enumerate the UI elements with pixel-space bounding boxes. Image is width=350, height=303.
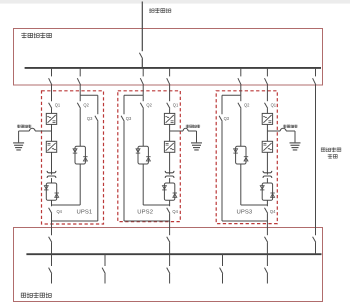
- battery UPS3: [294, 131, 296, 142]
- svg-text:Q1: Q1: [55, 103, 61, 108]
- wire: load feeder x=222.5: [222, 254, 224, 266]
- wire: [123, 121, 125, 221]
- wire: [169, 274, 171, 284]
- battery UPS2: [196, 131, 198, 142]
- bus: output cabinet busbar: [26, 253, 321, 255]
- wire: to output junction: [51, 200, 53, 206]
- wire: [240, 108, 242, 146]
- wire: maintenance bypass branch Q3 UPS2: [123, 95, 125, 114]
- wire: rectifier feed drop UPS2: [169, 68, 171, 77]
- rectifier (AC/DC) UPS3: [262, 113, 272, 124]
- label 电池开关: [283, 125, 286, 128]
- svg-text:Q2: Q2: [83, 103, 89, 108]
- wire: to output junction: [266, 200, 268, 206]
- output cabinet box 输出配电柜: [14, 228, 323, 302]
- wire: [169, 108, 171, 113]
- external maintenance bypass riser 外置维修旁路: [315, 68, 317, 77]
- wire: maintenance branch rejoins output: [52, 220, 98, 222]
- UPS unit UPS3 dashed enclosure: [216, 91, 277, 224]
- inverter (DC/AC) UPS2: [164, 141, 174, 152]
- breaker Q3 UPS3: [219, 116, 222, 122]
- inverter static switch UPS2: [164, 183, 174, 200]
- wire: maintenance branch rejoins output: [124, 220, 170, 222]
- wire: [169, 85, 171, 101]
- breaker: input cabinet feed (main) UPS2: [167, 78, 170, 85]
- label 电池开关: [17, 125, 20, 128]
- breaker Q4 UPS2: [167, 208, 170, 214]
- wire: inverter output UPS2: [169, 152, 171, 171]
- wire: tee to maintenance branch UPS3: [222, 94, 241, 96]
- wire: [266, 242, 268, 254]
- wire: bypass feed drop UPS1: [79, 68, 81, 77]
- wire: bypass feed drop UPS2: [142, 68, 144, 77]
- breaker Q4 UPS3: [265, 208, 268, 214]
- label 电池开关: [186, 125, 189, 128]
- wire: load feeder below bus (under UPS2): [169, 254, 171, 266]
- wire: rectifier feed drop UPS1: [51, 68, 53, 77]
- breaker: ext bypass top: [313, 78, 316, 85]
- battery branch UPS3 电池开关: [267, 130, 280, 132]
- breaker Q3 UPS1: [95, 116, 98, 122]
- svg-text:Q4: Q4: [172, 209, 178, 214]
- wire: tee to maintenance branch UPS1: [80, 94, 98, 96]
- wire: [141, 59, 143, 68]
- svg-text:Q2: Q2: [244, 103, 250, 108]
- wire: [169, 213, 171, 221]
- wire: DC link UPS2: [169, 124, 171, 141]
- breaker Q2 UPS2: [140, 103, 143, 109]
- wire: [169, 178, 171, 183]
- top gray band: [0, 0, 350, 4]
- svg-text:Q4: Q4: [270, 209, 276, 214]
- wire: [240, 85, 242, 96]
- battery UPS1: [18, 131, 20, 142]
- wire: [222, 274, 224, 284]
- wire: [142, 85, 144, 96]
- battery branch UPS2 电池开关: [170, 130, 184, 132]
- wire: utility input drop: [141, 2, 143, 52]
- UPS unit UPS1 dashed enclosure: [42, 91, 104, 224]
- svg-text:Q1: Q1: [271, 103, 277, 108]
- breaker: load feeder: [220, 268, 223, 274]
- breaker Q1 UPS1: [49, 103, 52, 109]
- breaker: ext bypass bottom: [313, 237, 316, 243]
- breaker: input cabinet feed (bypass) UPS2: [140, 78, 143, 85]
- battery switch bump: [29, 128, 35, 131]
- label 输入配电柜: [21, 33, 26, 39]
- svg-text:Q2: Q2: [146, 103, 152, 108]
- wire: UPS output exit: [169, 221, 171, 235]
- wire: [79, 85, 81, 96]
- wire: inverter output UPS3: [266, 152, 268, 171]
- breaker: output cabinet feed UPS3: [265, 237, 268, 243]
- wire: [79, 108, 81, 146]
- wire: DC link UPS1: [51, 124, 53, 141]
- breaker: load feeder: [102, 268, 105, 274]
- label 外置维修: [321, 148, 325, 152]
- wire: bypass output joins inverter output: [240, 164, 242, 205]
- rectifier (AC/DC) UPS2: [164, 113, 174, 124]
- battery switch bump: [183, 128, 188, 131]
- wire: [169, 242, 171, 254]
- breaker Q2 UPS3: [238, 103, 241, 109]
- bypass static switch UPS1: [75, 146, 85, 164]
- wire: maintenance bypass branch Q3 UPS3: [221, 95, 223, 114]
- breaker: load feeder: [265, 268, 268, 274]
- bypass static switch UPS3: [236, 146, 246, 164]
- connector (drawout contact) UPS3: [263, 171, 272, 173]
- wire: UPS output exit: [51, 221, 53, 235]
- input cabinet box 输入配电柜: [14, 29, 323, 86]
- wire: maintenance bypass branch Q3 UPS1: [97, 95, 99, 114]
- breaker: output cabinet feed UPS1: [49, 237, 52, 243]
- wire: bypass output joins inverter output: [142, 164, 144, 205]
- wire: [266, 274, 268, 284]
- wire: UPS output exit: [266, 221, 268, 235]
- breaker Q1 UPS3: [265, 103, 268, 109]
- bypass static switch UPS2: [138, 146, 148, 164]
- breaker: load feeder: [167, 268, 170, 274]
- wire: rectifier feed drop UPS3: [266, 68, 268, 77]
- wire: [266, 178, 268, 183]
- svg-text:Q4: Q4: [57, 209, 63, 214]
- wire: riser down right side: [315, 85, 317, 235]
- wire: [221, 121, 223, 221]
- inverter static switch UPS1: [46, 183, 56, 200]
- label 旁路: [328, 154, 333, 159]
- wire: [51, 178, 53, 183]
- bus: input cabinet busbar: [25, 67, 321, 69]
- wire: [315, 242, 317, 254]
- wire: [266, 213, 268, 221]
- wire: [97, 121, 99, 221]
- breaker Q3 UPS2: [121, 116, 124, 122]
- label 输出配电柜: [21, 293, 26, 297]
- breaker: input cabinet feed (main) UPS1: [49, 78, 52, 85]
- breaker: input cabinet feed (bypass) UPS3: [238, 78, 241, 85]
- connector (drawout contact) UPS1: [47, 171, 56, 173]
- svg-text:Q1: Q1: [173, 103, 179, 108]
- breaker: input cabinet feed (main) UPS3: [265, 78, 268, 85]
- wire: bypass output joins inverter output: [79, 164, 81, 205]
- wire: [266, 108, 268, 113]
- wire: [104, 274, 106, 284]
- svg-text:UPS2: UPS2: [137, 210, 153, 216]
- label 输入市电: [149, 8, 154, 13]
- svg-text:Q3: Q3: [224, 116, 230, 121]
- UPS unit UPS2 dashed enclosure: [118, 91, 181, 222]
- wire: [51, 213, 53, 221]
- svg-text:Q3: Q3: [126, 116, 132, 121]
- svg-text:Q3: Q3: [87, 116, 93, 121]
- breaker Q2 UPS1: [77, 103, 80, 109]
- wire: DC link UPS3: [266, 124, 268, 141]
- breaker: input cabinet feed (bypass) UPS1: [77, 78, 80, 85]
- inverter (DC/AC) UPS1: [46, 141, 56, 152]
- wire: load feeder below bus (under UPS3): [266, 254, 268, 266]
- inverter static switch UPS3: [262, 183, 272, 200]
- breaker Q4 UPS1: [49, 208, 52, 214]
- wire: maintenance branch rejoins output: [222, 220, 267, 222]
- svg-text:UPS1: UPS1: [77, 210, 93, 216]
- wire: inverter output UPS1: [51, 152, 53, 171]
- wire: load feeder x=105.0: [104, 254, 106, 266]
- breaker: output cabinet feed UPS2: [167, 237, 170, 243]
- breaker Q1 UPS2: [167, 103, 170, 109]
- wire: to output junction: [169, 200, 171, 206]
- wire: load feeder below bus (under UPS1): [51, 254, 53, 266]
- wire: [266, 85, 268, 101]
- breaker: load feeder: [49, 268, 52, 274]
- wire: [51, 108, 53, 113]
- svg-text:UPS3: UPS3: [237, 210, 253, 216]
- wire: [142, 108, 144, 146]
- wire: [51, 274, 53, 284]
- wire: bypass feed drop UPS3: [240, 68, 242, 77]
- battery branch UPS1 电池开关: [35, 130, 51, 132]
- connector (drawout contact) UPS2: [165, 171, 174, 173]
- wire: tee to maintenance branch UPS2: [124, 94, 143, 96]
- inverter (DC/AC) UPS3: [262, 141, 272, 152]
- battery switch bump: [280, 128, 286, 131]
- breaker: main input: [139, 53, 142, 59]
- rectifier (AC/DC) UPS1: [46, 113, 56, 124]
- wire: [51, 85, 53, 101]
- wire: [51, 242, 53, 254]
